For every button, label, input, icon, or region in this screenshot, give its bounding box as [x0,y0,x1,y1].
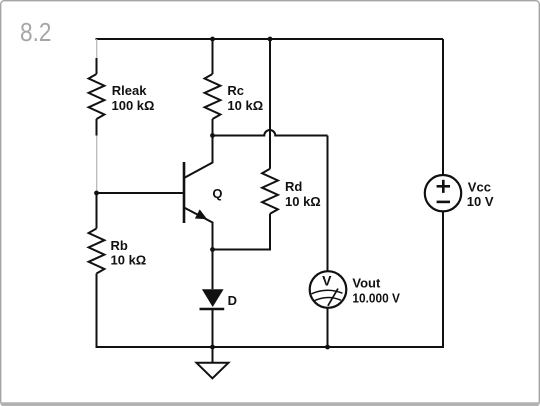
wire ground stem [212,347,214,363]
transistor Q collector [184,136,213,179]
svg-text:Rleak: Rleak [112,83,147,98]
svg-text:10 V: 10 V [467,194,494,209]
diode D triangle [202,289,224,307]
node ground junction [210,345,215,350]
wire voltmeter drop [327,136,329,272]
source Vcc plus [437,180,450,193]
wire Rleak top lead [96,58,98,74]
voltmeter needle [328,289,338,306]
voltmeter scale arc lower [314,297,341,300]
resistor Rc [205,74,221,119]
wire top rail [96,38,444,40]
wire left vertical gray lower segment [96,136,98,192]
svg-text:V: V [322,272,332,288]
wire Vcc top lead [442,39,444,176]
wire Rc top lead [212,39,214,74]
node voltmeter bottom [325,345,330,350]
wire Rc bottom lead [212,119,214,136]
resistor Rb [89,229,105,274]
diode D cathode bar [200,308,225,311]
svg-text:Q: Q [212,186,222,201]
wire Vcc bottom lead [442,211,444,348]
resistor Rleak [89,74,105,119]
svg-text:10 kΩ: 10 kΩ [285,194,321,209]
source Vcc body [425,175,461,211]
wire Rd bottom lead [213,214,271,250]
transistor Q emitter arrow [195,209,207,219]
node Rd top rail [268,37,273,42]
wire Rb bottom lead [96,274,98,349]
svg-text:10 kΩ: 10 kΩ [227,98,263,113]
svg-text:Rd: Rd [285,179,302,194]
svg-text:Vcc: Vcc [468,179,491,194]
svg-text:D: D [228,293,237,308]
wire mid horizontal with hop [213,130,328,136]
wire Rleak bottom lead [96,119,98,136]
svg-text:10 kΩ: 10 kΩ [111,253,147,268]
svg-text:10.000 V: 10.000 V [352,291,400,306]
svg-text:Rb: Rb [111,238,128,253]
svg-text:8.2: 8.2 [20,17,52,47]
wire Rb top lead [96,193,98,229]
wire voltmeter bottom lead [327,308,329,348]
ground [197,363,229,379]
resistor Rd [262,169,278,214]
svg-text:100 kΩ: 100 kΩ [112,98,155,113]
svg-text:Vout: Vout [352,275,381,290]
voltmeter scale arc upper [312,290,343,294]
node collector junction [210,133,215,138]
node emitter junction [210,247,215,252]
wire Rd vertical [269,39,271,169]
node base junction [94,191,99,196]
transistor Q emitter [184,208,213,250]
source Vcc minus [437,201,450,204]
wire base horizontal [97,192,185,194]
node Rc top [210,37,215,42]
voltmeter Vout body [310,271,347,308]
wire left vertical gray upper segment [96,39,98,58]
transistor Q base bar [183,162,186,223]
wire bottom rail [96,346,444,348]
svg-text:Rc: Rc [227,83,244,98]
wire diode cathode [212,309,214,348]
wire diode anode [212,250,214,290]
